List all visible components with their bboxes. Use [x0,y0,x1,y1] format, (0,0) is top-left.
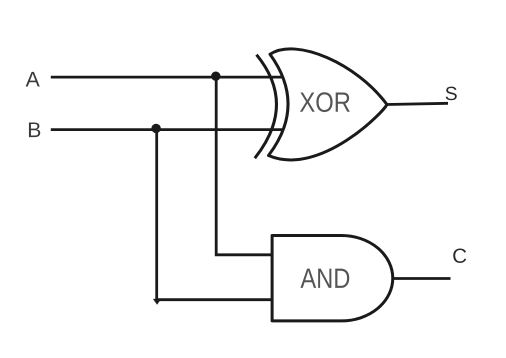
junction dot on wire B [151,124,160,133]
node B label [29,122,40,137]
wire XOR output to S [387,103,448,104]
node A label [26,72,40,87]
wire AND output to C [393,277,451,280]
junction dot on wire A [211,72,220,81]
node C label [453,248,466,263]
XOR gate U1 body [269,49,387,160]
AND gate U2 body [272,236,393,321]
wire B horizontal to XOR input [51,128,285,131]
node S label [446,87,457,101]
wire from A junction down to AND top input [216,77,273,255]
AND label [300,269,349,288]
XOR label [300,92,350,112]
wire from B junction down to AND bottom input [157,130,273,300]
XOR gate U1 outer input arc [255,55,277,159]
wire A horizontal to XOR input [51,76,284,79]
arrowhead blob at B-branch corner [153,299,161,305]
